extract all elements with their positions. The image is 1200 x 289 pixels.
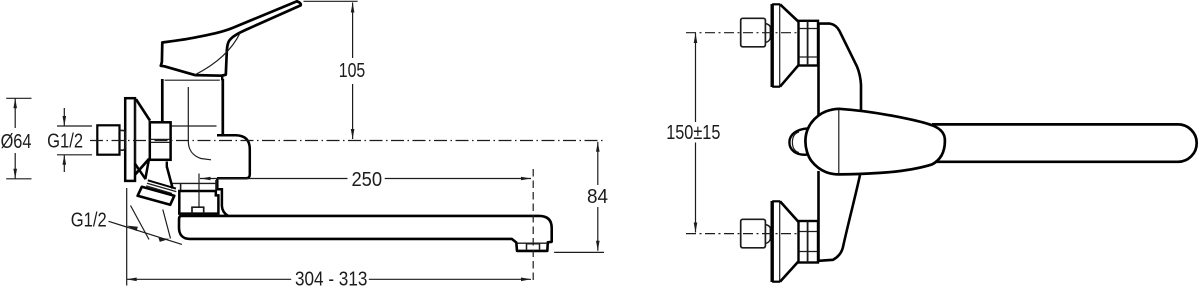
svg-text:Ø64: Ø64 [1,131,32,153]
cone top diagonal [136,99,150,121]
body left edge [161,79,164,123]
O64 extension lines [6,97,31,99]
knob inner thin arc [792,132,799,153]
svg-text:250: 250 [351,169,382,191]
body interior thin vertical [187,87,189,141]
aerator inner line [518,242,548,244]
collar top thin line [165,79,220,81]
dashed extension line at spout end [532,169,534,282]
outlet thread lines [148,180,176,188]
aerator small box [527,244,540,250]
lever knob (top view) [789,128,807,154]
bottom connector: nipple [741,219,766,248]
bottom neck [765,225,770,244]
lower spout union block [179,191,218,214]
top hex nut [799,21,819,66]
spout (side view) [179,216,552,251]
150+-15 dimension line [695,33,697,122]
bottom cone diagonals [780,201,799,222]
105 dimension line [352,3,354,59]
304-313 left extension line [126,188,128,286]
top neck [765,24,770,43]
neck left edge [145,160,149,179]
wall nipple left [97,125,119,154]
left escutcheon plate [125,98,135,181]
outlet pipe edge from plate [135,164,146,180]
main horizontal centerline (dash-dot) [90,140,603,142]
304-313 dimension line [127,278,292,280]
G1/2 upper extension lines [57,125,92,127]
105 extension line from lever tip [304,0,358,2]
hex nuts (two stacked) [150,122,171,160]
body right edge [221,79,224,136]
svg-text:G1/2: G1/2 [47,131,83,153]
nipple neck to plate [120,130,126,150]
spout-side connector (round flange, side) [217,135,250,178]
arrows on leader [127,226,138,231]
outlet cap [138,187,175,205]
connector centerlines (dash-dot) [686,32,797,34]
neck right edge [167,167,173,189]
top plate [771,4,774,87]
svg-text:150±15: 150±15 [666,122,720,144]
body edge below nut [166,162,168,168]
diagonal extension lines of outlet thread dim [131,206,150,240]
svg-text:84: 84 [587,186,608,208]
svg-text:304 - 313: 304 - 313 [295,269,367,289]
top cone diagonals [780,4,799,22]
250 extension line at spout root center [198,174,200,207]
plate inner face thin line [134,99,136,174]
84 dimension line [597,142,599,185]
block notch [192,207,204,213]
body (vertical column) [819,24,862,112]
handle seam thin curve [195,33,240,75]
G1/2 upper arrows [63,108,65,126]
shower outlet neck (diagonal) [146,162,173,189]
body interior arc (waterway) [188,141,211,160]
84 bottom extension line [554,251,604,253]
svg-text:G1/2: G1/2 [71,210,107,232]
right edge step below handle [222,75,226,81]
O64 dimension line [14,98,16,128]
bottom plate [771,201,774,282]
dome seam [838,110,840,174]
svg-text:105: 105 [339,60,366,82]
body interior thin horizontal [163,125,217,127]
250 dimension line [200,178,348,180]
handle lever and cap [161,1,301,75]
step below connector to spout [217,178,228,216]
spout (top view, long bar) [932,124,1197,161]
top connector: nipple [741,18,766,47]
dome (cartridge/handle cover, top view) [805,109,944,175]
valve body bottom edge [168,182,217,184]
cone bottom diagonal [135,159,149,175]
bottom hex nut [799,221,819,263]
